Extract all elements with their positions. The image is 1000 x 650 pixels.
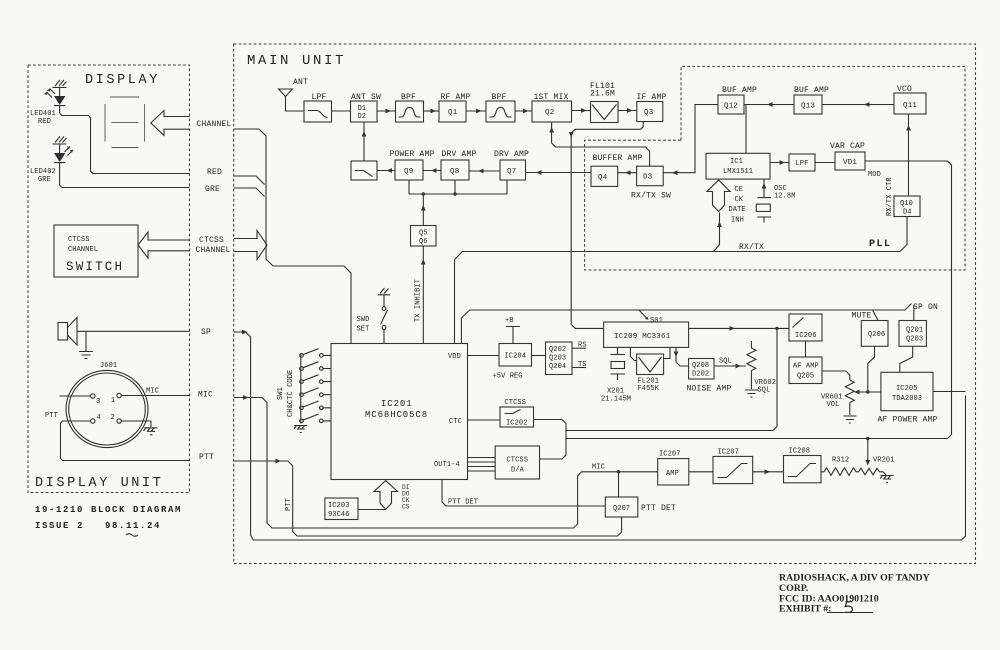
svg-text:ANT SW: ANT SW (351, 93, 381, 102)
wire MIC into main unit (234, 398, 658, 529)
wire VR601 wiper to IC205 (856, 391, 881, 393)
svg-text:Q204: Q204 (549, 363, 566, 371)
svg-text:Q9: Q9 (404, 168, 413, 176)
svg-text:RED: RED (207, 168, 222, 177)
svg-text:CHANNEL: CHANNEL (197, 120, 232, 129)
svg-text:SQL: SQL (719, 358, 732, 366)
svg-text:J601: J601 (100, 362, 117, 370)
arrowhead MIC (243, 395, 249, 400)
LED401 (44, 88, 66, 114)
svg-text:CTCSS: CTCSS (68, 236, 90, 244)
svg-text:BPF: BPF (401, 93, 416, 102)
svg-text:Q207: Q207 (613, 505, 630, 513)
wire RED joining bus (234, 176, 265, 185)
wire RX/TX up to IC1 arrow (714, 213, 720, 252)
handwritten 5 (845, 602, 852, 613)
EEPROM IC203 93C46 (325, 498, 358, 520)
svg-text:Q1: Q1 (448, 109, 458, 117)
CTCSS CHANNEL SWITCH box (54, 225, 138, 277)
svg-text:Q203: Q203 (906, 336, 923, 344)
CTCSS filter IC202 (500, 407, 534, 427)
+5V REG IC204 (499, 344, 532, 367)
junction dot IC209 out (775, 327, 778, 330)
display unit dashed enclosure (28, 65, 190, 493)
svg-text:MC68HC05C8: MC68HC05C8 (365, 410, 428, 420)
DRV AMP Q8 (441, 160, 469, 180)
svg-text:IC204: IC204 (505, 353, 527, 361)
audio filter IC206 (789, 314, 822, 341)
wire D3 to Q4 (618, 172, 637, 174)
1ST MIX Q2 (532, 101, 572, 122)
svg-text:NOISE AMP: NOISE AMP (687, 385, 732, 394)
connector J601 (66, 370, 148, 447)
CPU IC201 MC68HC05C8 (331, 344, 468, 480)
svg-text:PTT DET: PTT DET (641, 504, 676, 513)
svg-text:S01: S01 (650, 317, 663, 325)
svg-text:DRV AMP: DRV AMP (442, 150, 477, 159)
svg-text:RX/TX CTR: RX/TX CTR (886, 177, 894, 216)
VCO Q11 (894, 93, 926, 114)
crystal X201 21.145M (611, 347, 626, 380)
svg-text:LED402: LED402 (30, 168, 56, 176)
wire TX INHIBIT IC201 to Q5 Q6 (422, 246, 424, 344)
wire IC203 to arrow (358, 509, 386, 511)
wire CTCSS tone line lower (mod feed) (566, 438, 948, 440)
wire Q10 D4 to RX/TX line (900, 217, 907, 252)
svg-text:Q6: Q6 (419, 238, 428, 246)
LPF box (304, 101, 332, 122)
bias bus under PA row (409, 180, 507, 194)
svg-text:AMP: AMP (666, 470, 679, 478)
svg-text:RS: RS (578, 342, 587, 350)
wire Q13 to Q12 (744, 104, 794, 106)
svg-text:DISPLAY: DISPLAY (85, 73, 160, 88)
svg-text:21.145M: 21.145M (601, 396, 631, 404)
svg-text:12.8M: 12.8M (774, 193, 796, 201)
svg-text:X201: X201 (607, 388, 624, 396)
wire IC202 out (534, 420, 567, 460)
svg-text:Q7: Q7 (507, 168, 516, 176)
IC1 LMX1511 (706, 153, 770, 179)
pin 4 (91, 419, 95, 423)
SW1 CH&CTC CODE dip switches (301, 349, 331, 424)
wire Q3 down to IC209 input (571, 122, 643, 329)
OSC crystal 12.8M (756, 179, 771, 222)
svg-text:AF AMP: AF AMP (793, 363, 819, 371)
svg-text:RED: RED (38, 118, 51, 126)
supply bar for LED401 (53, 80, 67, 88)
pin 3 (91, 394, 95, 398)
svg-text:POWER AMP: POWER AMP (390, 150, 435, 159)
wire PTT DET from IC201 (442, 480, 605, 507)
wire Q9 to switch (377, 170, 395, 172)
wire LED401 to RED (60, 113, 190, 174)
svg-text:VR201: VR201 (873, 457, 895, 465)
junction dot mic line (617, 470, 620, 473)
resistor R312 (821, 468, 859, 476)
svg-text:VDD: VDD (448, 353, 461, 361)
svg-text:Q201: Q201 (906, 327, 923, 335)
wire Q11 to Q13 (822, 104, 894, 106)
wire pin2 to ground (121, 421, 151, 427)
svg-text:D202: D202 (692, 371, 709, 379)
wire noise amp to VR602 (714, 365, 746, 367)
wire SP into main unit and bottom return (234, 332, 966, 540)
svg-text:TS: TS (578, 361, 587, 369)
BUF AMP Q12 (718, 95, 744, 114)
wire RX/TX control line (455, 252, 901, 344)
wire mute line to Q206 (873, 310, 879, 321)
svg-text:DISPLAY UNIT: DISPLAY UNIT (35, 476, 163, 491)
AF AMP Q205 (789, 357, 822, 384)
svg-text:LPF: LPF (312, 93, 327, 102)
svg-text:RF AMP: RF AMP (441, 93, 471, 102)
svg-text:CE: CE (735, 186, 744, 194)
svg-text:4: 4 (97, 414, 101, 422)
svg-text:GRE: GRE (38, 176, 51, 184)
svg-text:SP: SP (201, 328, 211, 337)
splatter filter IC208 (784, 456, 822, 483)
svg-text:CTCSS: CTCSS (505, 399, 527, 407)
svg-text:PTT: PTT (45, 412, 58, 420)
svg-text:AF POWER AMP: AF POWER AMP (878, 416, 938, 425)
svg-text:CTC: CTC (449, 418, 462, 426)
pin 2 (117, 419, 121, 423)
svg-text:PTT: PTT (285, 498, 293, 511)
wire buffer Q4 to Q7 (526, 172, 592, 174)
wire ANT SW to BPF (377, 110, 396, 112)
svg-text:PTT: PTT (199, 453, 214, 462)
svg-text:1: 1 (111, 397, 115, 405)
svg-text:LPF: LPF (796, 160, 809, 168)
APC Q5 Q6 (411, 226, 437, 247)
stub TS (572, 367, 586, 369)
svg-text:IC209 MC3361: IC209 MC3361 (614, 333, 671, 341)
BPF box 1 (396, 101, 424, 122)
svg-text:VCO: VCO (897, 85, 912, 94)
PLL dashed enclosure (585, 66, 965, 270)
svg-text:BUF AMP: BUF AMP (794, 86, 829, 95)
IF AMP Q3 (637, 102, 663, 122)
svg-text:Q11: Q11 (903, 102, 917, 110)
FL101 filter (591, 102, 619, 123)
NOISE AMP Q208 D202 (689, 359, 714, 380)
svg-text:Q208: Q208 (692, 362, 709, 370)
mute/SP-ON line from IC201 (461, 304, 911, 344)
wire LPF to VD1 (815, 162, 835, 164)
ground at VR201 (880, 476, 894, 483)
svg-text:PTT DET: PTT DET (448, 499, 478, 507)
wire Q8 to Q9 (423, 170, 441, 172)
wire S01 tap to IC209 (639, 310, 648, 319)
svg-text:SP ON: SP ON (913, 303, 938, 312)
svg-text:IC203: IC203 (328, 502, 350, 510)
SWD SET switch (378, 288, 390, 307)
svg-text:Q202: Q202 (549, 346, 566, 354)
svg-text:+5V REG: +5V REG (493, 373, 523, 381)
svg-text:IC208: IC208 (789, 448, 811, 456)
svg-text:Q13: Q13 (801, 103, 815, 111)
wire amp to limiter (689, 471, 713, 473)
wire CTCSS tone line upper (566, 328, 777, 430)
svg-text:DRV AMP: DRV AMP (494, 150, 529, 159)
ground under VR602 (745, 390, 758, 397)
hollow arrow CTCSS (points left into switch box) (138, 232, 190, 258)
svg-text:LED401: LED401 (30, 110, 56, 118)
arrowhead PTT (276, 459, 282, 464)
svg-text:Q203: Q203 (549, 355, 566, 363)
svg-text:MIC: MIC (198, 391, 213, 400)
svg-text:SWD: SWD (357, 316, 370, 324)
svg-text:19-1210 BLOCK DIAGRAM: 19-1210 BLOCK DIAGRAM (35, 505, 182, 515)
svg-text:RX/TX SW: RX/TX SW (631, 192, 671, 201)
wire IC1 to LPF (770, 162, 789, 164)
svg-text:IC206: IC206 (795, 332, 817, 340)
svg-text:ANT: ANT (293, 78, 308, 87)
hollow arrow CTCSS into main unit (points right) (234, 231, 267, 260)
svg-text:VAR CAP: VAR CAP (830, 142, 865, 151)
wire Q7 to Q8 (469, 170, 500, 172)
VAR CAP VD1 (835, 152, 865, 170)
svg-text:MOD: MOD (868, 171, 881, 179)
svg-text:VD1: VD1 (843, 159, 857, 167)
svg-text:IC207: IC207 (718, 449, 740, 457)
RX/TX SW D3 (637, 166, 664, 186)
wire Q206 to wiper line (868, 346, 875, 392)
arrowhead SP (242, 330, 248, 335)
svg-text:CTCSS: CTCSS (507, 457, 529, 465)
svg-text:IC202: IC202 (506, 420, 528, 428)
svg-text:PLL: PLL (869, 239, 892, 250)
wire 1ST MIX to FL101 (572, 110, 591, 112)
LED402 (54, 144, 73, 185)
svg-text:LMX1511: LMX1511 (723, 168, 753, 176)
ANT SW D1 D2 (351, 101, 378, 122)
ceramic filter FL201 F455K (630, 347, 636, 360)
main unit dashed enclosure (234, 44, 976, 564)
BUFFER AMP Q4 (591, 166, 618, 186)
svg-text:MAIN UNIT: MAIN UNIT (247, 53, 346, 69)
svg-text:OUT1-4: OUT1-4 (434, 461, 460, 469)
wire mod line junction to VR201 (866, 437, 869, 440)
supply bar for LED402 (53, 137, 67, 145)
wire IC204 to Q202 (532, 355, 546, 357)
wire pin3 stub (60, 395, 91, 397)
svg-text:VOL: VOL (827, 401, 840, 409)
svg-text:IC205: IC205 (896, 385, 918, 393)
svg-text:IC207: IC207 (659, 451, 681, 459)
svg-text:MUTE: MUTE (852, 312, 872, 321)
wire pin4 to PTT out (61, 421, 190, 461)
DRV AMP Q7 (500, 160, 526, 180)
LPF (pll loop filter) (789, 154, 815, 171)
wire switch to ANT SW (363, 122, 365, 161)
svg-text:SET: SET (357, 326, 370, 334)
svg-text:CTCSS: CTCSS (199, 236, 224, 245)
svg-text:CH&CTC CODE: CH&CTC CODE (287, 370, 295, 417)
svg-text:TDA2003: TDA2003 (892, 395, 922, 403)
wire LPF to ANT SW (332, 110, 351, 112)
RX/TX CTR Q10 D4 (894, 196, 920, 217)
svg-text:EXHIBIT #:: EXHIBIT #: (779, 604, 831, 615)
svg-text:+B: +B (505, 317, 514, 325)
svg-text:CS: CS (402, 504, 410, 511)
BPF box 2 (486, 101, 515, 122)
svg-text:D/A: D/A (511, 467, 525, 475)
ground under SW1 (294, 426, 307, 433)
wire PTT into main unit (234, 461, 622, 536)
MUTE Q206 (861, 321, 888, 347)
wire Q201 Q203 to IC205 (900, 346, 913, 372)
wire limiter to IC208 (753, 471, 784, 473)
wire bus to Q5 Q6 (422, 194, 424, 226)
stub RS (572, 347, 586, 349)
MIC AMP IC207 (658, 459, 689, 485)
limiter IC207 (713, 456, 753, 483)
RF AMP Q1 (439, 101, 466, 122)
wire pin1 MIC out (121, 395, 189, 397)
wire FL101 to IF AMP (618, 110, 637, 112)
Q202 Q203 Q204 (546, 342, 573, 375)
hollow arrow into IC201 (eeprom bus) (374, 481, 398, 510)
deviation pot VR201 (859, 468, 887, 475)
antenna ANT (279, 89, 305, 111)
wire GRE joining bus (234, 188, 265, 197)
wire RF AMP to BPF2 (466, 110, 486, 112)
svg-text:CHANNEL: CHANNEL (196, 246, 231, 255)
ground under VR601 (843, 416, 856, 423)
svg-text:Q8: Q8 (450, 168, 459, 176)
svg-text:CORP.: CORP. (779, 583, 809, 594)
svg-text:IF AMP: IF AMP (637, 93, 667, 102)
squelch pot VR602 (747, 341, 756, 389)
svg-text:IC1: IC1 (730, 158, 743, 166)
hollow arrow CHANNEL (points left into display) (151, 111, 190, 136)
SP switch Q201 Q203 (899, 321, 926, 347)
wire IC209 to noise amp (676, 347, 689, 366)
wire BPF to RF AMP (424, 110, 440, 112)
svg-text:TX INHIBIT: TX INHIBIT (415, 279, 423, 322)
wire feedback to IC1 top (745, 105, 747, 154)
svg-text:BUF AMP: BUF AMP (722, 86, 757, 95)
svg-text:Q12: Q12 (724, 103, 738, 111)
svg-text:D4: D4 (903, 209, 912, 217)
svg-text:Q206: Q206 (868, 331, 885, 339)
svg-text:2: 2 (111, 414, 115, 422)
svg-text:93C46: 93C46 (328, 511, 350, 519)
svg-text:CK: CK (735, 196, 744, 204)
ground at pin2 (144, 428, 158, 435)
svg-text:D3: D3 (643, 174, 653, 182)
svg-text:Q10: Q10 (900, 200, 913, 208)
wire IC209 out to IC206 (689, 327, 789, 329)
svg-text:CHANNEL: CHANNEL (68, 246, 98, 254)
wire CHANNEL bus into IC201 (234, 129, 351, 344)
volume pot VR601 (845, 380, 854, 415)
wire CTC to IC202 (468, 419, 501, 421)
ground under speaker (79, 352, 93, 359)
svg-text:INH: INH (731, 217, 744, 225)
BUF AMP Q13 (794, 95, 822, 114)
wire Q12 down to D3 (663, 105, 718, 173)
wire SP ON to Q201 Q203 (913, 305, 915, 321)
seven segment display (105, 97, 145, 148)
exhibit underline (827, 612, 873, 614)
svg-text:Q4: Q4 (598, 174, 608, 182)
svg-text:DATE: DATE (729, 206, 746, 214)
svg-text:BUFFER AMP: BUFFER AMP (593, 154, 643, 163)
wire VD1 MOD line down (865, 161, 952, 439)
svg-text:IC201: IC201 (381, 399, 413, 409)
wire AF AMP to VR601 (822, 371, 850, 380)
hollow arrow into IC1 (programming bus) (707, 180, 730, 212)
svg-text:GRE: GRE (205, 185, 220, 194)
svg-text:SW1: SW1 (277, 387, 285, 400)
svg-text:RX/TX: RX/TX (739, 243, 764, 252)
svg-text:Q205: Q205 (797, 373, 814, 381)
FM IF IC209 MC3361 (604, 322, 689, 347)
wire BPF2 to 1ST MIX (515, 110, 532, 112)
wire IC205 output (933, 391, 966, 393)
POWER AMP Q9 (395, 160, 423, 180)
wire VDD to IC204 (468, 355, 500, 357)
svg-text:MIC: MIC (146, 388, 159, 396)
svg-text:ISSUE 2 98.11.24: ISSUE 2 98.11.24 (35, 521, 161, 531)
svg-text:BPF: BPF (492, 93, 507, 102)
wire OUT1-4 to D/A (468, 458, 496, 472)
pin 1 (117, 393, 121, 397)
junction dot wiper line (866, 390, 869, 393)
svg-text:D1: D1 (358, 105, 367, 113)
switch box (ant changeover) (351, 161, 377, 180)
wire LED402 to GRE (60, 185, 190, 188)
svg-text:3: 3 (96, 398, 100, 406)
svg-text:R312: R312 (832, 457, 849, 465)
CTCSS D/A box (495, 446, 539, 479)
svg-text:Q5: Q5 (419, 230, 428, 238)
svg-text:RADIOSHACK, A DIV OF TANDY: RADIOSHACK, A DIV OF TANDY (779, 573, 930, 584)
svg-text:F455K: F455K (638, 385, 660, 393)
speaker SP601 (58, 318, 190, 352)
svg-text:Q3: Q3 (644, 109, 654, 117)
PTT DET Q207 (605, 497, 638, 517)
svg-text:SWITCH: SWITCH (66, 260, 124, 274)
wire IC206 to AF AMP (805, 341, 807, 357)
svg-text:1ST MIX: 1ST MIX (534, 93, 569, 102)
stray mark (126, 534, 138, 537)
AF POWER AMP IC205 TDA2003 (881, 372, 933, 410)
junction dots on bias bus (422, 192, 425, 195)
wire Q11 to Q10 D4 (908, 114, 910, 196)
svg-text:D2: D2 (358, 113, 367, 121)
svg-text:21.6M: 21.6M (590, 90, 615, 99)
svg-text:Q2: Q2 (545, 109, 554, 117)
wire mic line to Q207 (618, 472, 620, 497)
svg-text:MIC: MIC (592, 464, 605, 472)
wire D3 top to 1ST MIX (552, 123, 650, 167)
svg-text:SQL: SQL (758, 387, 771, 395)
